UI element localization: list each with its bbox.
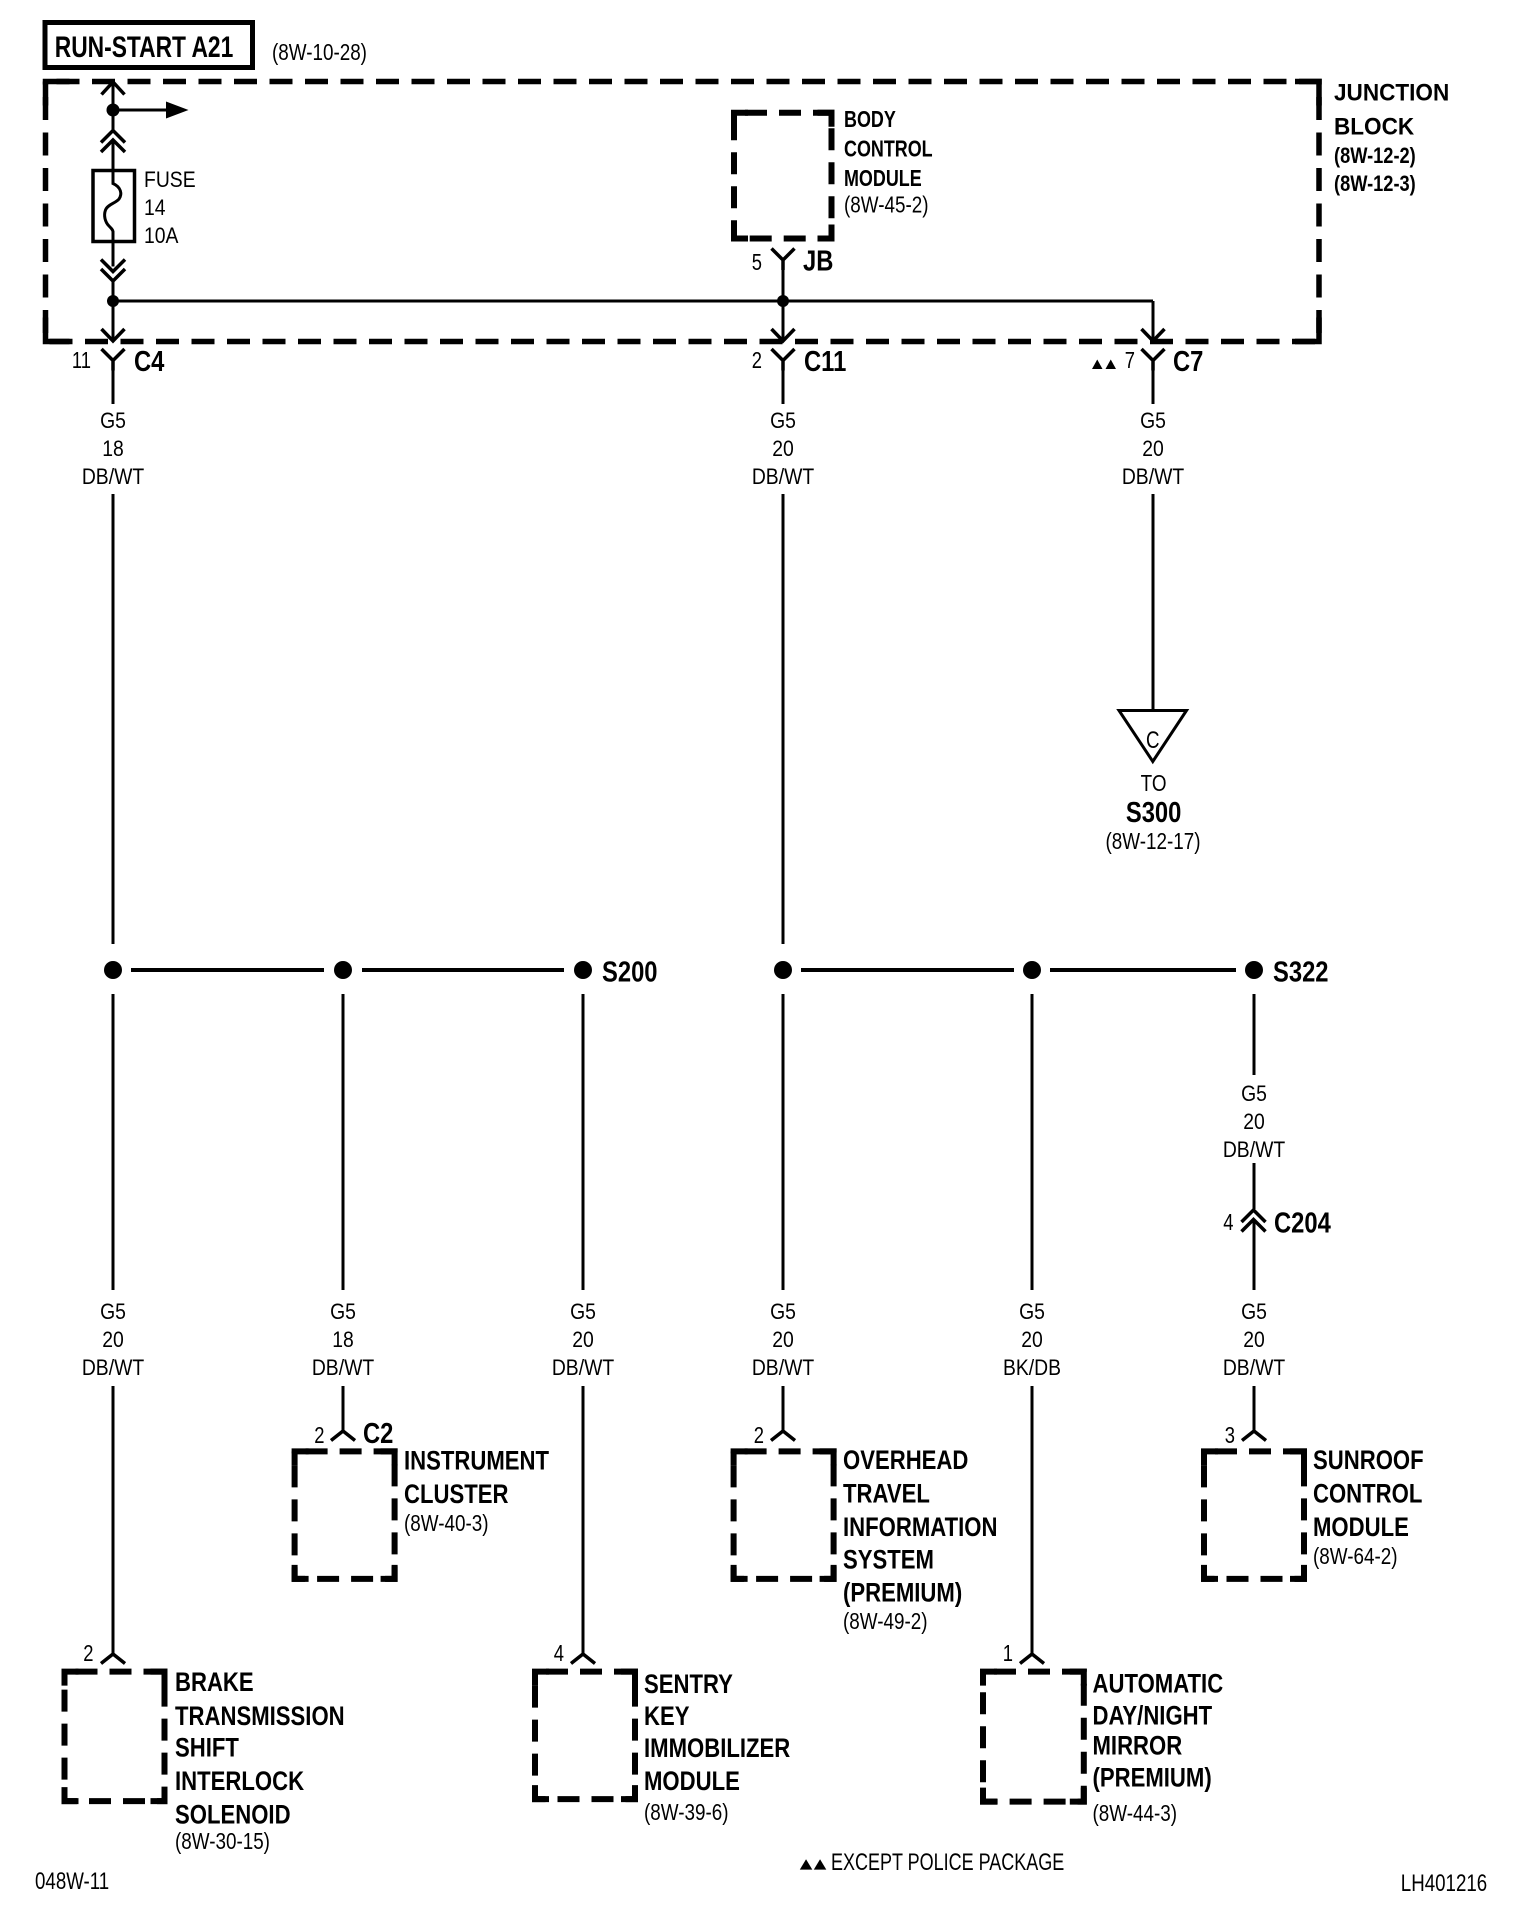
svg-text:TRAVEL: TRAVEL: [843, 1480, 930, 1510]
svg-text:G5: G5: [1019, 1300, 1045, 1324]
junction node at JB: [777, 295, 789, 307]
connector at mirror: [1020, 1654, 1044, 1664]
wire label G5 20 DB/WT: [1223, 1082, 1286, 1162]
svg-text:(8W-40-3): (8W-40-3): [404, 1511, 488, 1536]
label fuse 14 10A: [144, 168, 196, 248]
connector C4: [102, 349, 125, 371]
svg-text:2: 2: [83, 1641, 93, 1666]
svg-text:20: 20: [102, 1328, 124, 1352]
svg-text:CONTROL: CONTROL: [844, 136, 933, 162]
label TO S300: [1106, 771, 1201, 854]
svg-text:DB/WT: DB/WT: [82, 1356, 145, 1380]
svg-text:G5: G5: [1241, 1082, 1267, 1106]
connector pass-through (double chevron): [101, 131, 125, 153]
wire: [112, 110, 115, 133]
svg-text:C: C: [1146, 727, 1160, 754]
wire: [112, 242, 115, 267]
svg-text:KEY: KEY: [644, 1702, 690, 1732]
svg-text:C4: C4: [134, 345, 165, 378]
svg-text:(8W-44-3): (8W-44-3): [1093, 1801, 1177, 1826]
wire: [1152, 494, 1155, 711]
automatic day/night mirror: [983, 1672, 1084, 1802]
svg-text:20: 20: [1142, 437, 1164, 461]
svg-text:20: 20: [572, 1328, 594, 1352]
svg-text:20: 20: [772, 437, 794, 461]
wire label G5 20 DB/WT: [1122, 409, 1185, 489]
wire label G5 20 DB/WT: [752, 409, 815, 489]
svg-text:S300: S300: [1126, 796, 1181, 829]
wire label G5 20 DB/WT: [752, 1300, 815, 1380]
sunroof control module: [1204, 1451, 1304, 1579]
svg-text:20: 20: [772, 1328, 794, 1352]
label overhead travel information system (premium): [843, 1446, 997, 1634]
wire: [582, 1386, 585, 1654]
wire label G5 20 DB/WT: [552, 1300, 615, 1380]
svg-text:BODY: BODY: [844, 107, 896, 133]
svg-text:MODULE: MODULE: [844, 166, 922, 192]
svg-text:OVERHEAD: OVERHEAD: [843, 1446, 968, 1476]
svg-text:BK/DB: BK/DB: [1003, 1356, 1061, 1380]
svg-text:BRAKE: BRAKE: [175, 1668, 254, 1698]
wire: [112, 370, 115, 404]
wire label G5 18 DB/WT: [312, 1300, 375, 1380]
svg-text:(8W-49-2): (8W-49-2): [843, 1609, 927, 1634]
svg-text:DB/WT: DB/WT: [1223, 1138, 1286, 1162]
label sunroof control module: [1313, 1446, 1424, 1569]
junction node: [107, 104, 120, 117]
connector at solenoid: [101, 1654, 125, 1664]
svg-text:(8W-30-15): (8W-30-15): [175, 1829, 270, 1854]
svg-text:048W-11: 048W-11: [35, 1868, 109, 1895]
sentry key immobilizer module: [535, 1672, 635, 1800]
svg-text:(8W-12-17): (8W-12-17): [1106, 829, 1201, 854]
svg-text:SHIFT: SHIFT: [175, 1734, 239, 1764]
svg-text:G5: G5: [100, 409, 126, 433]
svg-text:DB/WT: DB/WT: [82, 465, 145, 489]
svg-text:20: 20: [1243, 1110, 1265, 1134]
wire: [782, 370, 785, 404]
svg-text:18: 18: [332, 1328, 354, 1352]
svg-text:DB/WT: DB/WT: [552, 1356, 615, 1380]
wire: [1031, 994, 1034, 1290]
wire: [112, 494, 115, 944]
wire label G5 20 DB/WT: [1223, 1300, 1286, 1380]
wire label G5 20 DB/WT: [82, 1300, 145, 1380]
wire: [112, 301, 115, 339]
wire: [782, 994, 785, 1290]
in-line connector C204: [1223, 1206, 1331, 1239]
wire: [582, 994, 585, 1290]
svg-text:MIRROR: MIRROR: [1093, 1732, 1183, 1762]
svg-text:4: 4: [554, 1641, 564, 1666]
svg-text:3: 3: [1225, 1423, 1235, 1448]
svg-text:G5: G5: [1241, 1300, 1267, 1324]
svg-text:5: 5: [752, 250, 762, 275]
connector pass-through (double chevron down): [101, 260, 125, 282]
arrow into connector C4: [102, 329, 125, 341]
wire: [112, 141, 115, 171]
svg-text:RUN-START A21: RUN-START A21: [55, 30, 234, 64]
svg-text:SOLENOID: SOLENOID: [175, 1801, 291, 1831]
wire: [1152, 370, 1155, 404]
svg-text:(8W-12-3): (8W-12-3): [1334, 173, 1416, 197]
wire: [1152, 301, 1155, 339]
svg-text:MODULE: MODULE: [644, 1767, 740, 1797]
svg-text:4: 4: [1223, 1210, 1233, 1235]
svg-text:G5: G5: [770, 409, 796, 433]
feed box RUN-START A21: [45, 23, 253, 68]
svg-text:(PREMIUM): (PREMIUM): [843, 1579, 962, 1609]
svg-text:2: 2: [752, 348, 762, 373]
svg-text:LH401216: LH401216: [1401, 1870, 1487, 1897]
bus wire inside junction block: [113, 300, 1153, 303]
svg-text:(8W-45-2): (8W-45-2): [844, 193, 928, 218]
wire: [1253, 1163, 1256, 1209]
svg-text:G5: G5: [770, 1300, 796, 1324]
connector C11: [772, 349, 795, 371]
brake transmission shift interlock solenoid: [65, 1672, 165, 1802]
svg-text:G5: G5: [1140, 409, 1166, 433]
svg-text:(8W-12-2): (8W-12-2): [1334, 145, 1416, 169]
svg-text:G5: G5: [100, 1300, 126, 1324]
connector at OTIS: [771, 1431, 795, 1441]
svg-text:C7: C7: [1173, 345, 1203, 378]
svg-text:SENTRY: SENTRY: [644, 1670, 733, 1700]
instrument cluster: [295, 1451, 395, 1579]
svg-text:(8W-64-2): (8W-64-2): [1313, 1544, 1397, 1569]
svg-text:FUSE: FUSE: [144, 168, 196, 192]
svg-text:1: 1: [1003, 1641, 1013, 1666]
svg-text:AUTOMATIC: AUTOMATIC: [1093, 1670, 1224, 1700]
junction block border: [46, 82, 1320, 342]
junction node: [107, 295, 119, 307]
svg-text:CONTROL: CONTROL: [1313, 1480, 1422, 1510]
svg-text:2: 2: [754, 1423, 764, 1448]
wire: [782, 1386, 785, 1431]
splice S200: [104, 955, 657, 988]
wire: [1253, 1220, 1256, 1290]
svg-text:INFORMATION: INFORMATION: [843, 1513, 997, 1543]
svg-text:S322: S322: [1273, 955, 1328, 988]
svg-text:IMMOBILIZER: IMMOBILIZER: [644, 1734, 790, 1764]
svg-text:BLOCK: BLOCK: [1334, 113, 1414, 140]
svg-text:11: 11: [72, 348, 91, 373]
wire: [112, 1386, 115, 1654]
wire: [1253, 994, 1256, 1075]
wire: [112, 994, 115, 1290]
svg-text:18: 18: [102, 437, 124, 461]
wire label G5 20 BK/DB: [1003, 1300, 1061, 1380]
wire: [112, 84, 115, 110]
police package marks: [1092, 360, 1103, 370]
connector C2: [331, 1431, 355, 1441]
splice S322: [774, 955, 1328, 988]
svg-text:MODULE: MODULE: [1313, 1513, 1409, 1543]
svg-text:20: 20: [1021, 1328, 1043, 1352]
arrow into connector C11: [772, 329, 795, 341]
svg-text:G5: G5: [330, 1300, 356, 1324]
connector JB: [772, 249, 795, 271]
svg-text:DB/WT: DB/WT: [1122, 465, 1185, 489]
connector C7: [1142, 349, 1165, 371]
junction block label: [1334, 79, 1449, 197]
arrow into connector C7: [1142, 329, 1165, 341]
svg-text:INTERLOCK: INTERLOCK: [175, 1767, 304, 1797]
body control module: [734, 113, 832, 239]
footnote except police package: [800, 1850, 1065, 1876]
svg-text:14: 14: [144, 196, 166, 220]
wire: [782, 260, 785, 339]
svg-text:(PREMIUM): (PREMIUM): [1093, 1764, 1212, 1794]
svg-text:TRANSMISSION: TRANSMISSION: [175, 1702, 345, 1732]
wire label G5 18 DB/WT: [82, 409, 145, 489]
wire: [1031, 1386, 1034, 1654]
svg-text:CLUSTER: CLUSTER: [404, 1480, 509, 1510]
svg-text:TO: TO: [1141, 771, 1167, 796]
fuse 14 10A: [93, 171, 135, 242]
label automatic day/night mirror (premium): [1093, 1670, 1224, 1827]
svg-text:20: 20: [1243, 1328, 1265, 1352]
label sentry key immobilizer module: [644, 1670, 790, 1825]
svg-text:S200: S200: [602, 955, 657, 988]
svg-text:INSTRUMENT: INSTRUMENT: [404, 1447, 549, 1477]
svg-text:DB/WT: DB/WT: [752, 1356, 815, 1380]
svg-text:DB/WT: DB/WT: [752, 465, 815, 489]
connector at SKIM: [571, 1654, 595, 1664]
label body control module: [844, 107, 933, 218]
svg-text:DAY/NIGHT: DAY/NIGHT: [1093, 1702, 1213, 1732]
svg-text:7: 7: [1125, 348, 1135, 373]
svg-text:C11: C11: [804, 345, 846, 378]
connector at sunroof module: [1242, 1431, 1266, 1441]
label instrument cluster: [404, 1447, 549, 1537]
svg-text:G5: G5: [570, 1300, 596, 1324]
svg-text:C204: C204: [1274, 1206, 1331, 1239]
wire: [342, 994, 345, 1290]
wire: [112, 281, 115, 301]
svg-text:SUNROOF: SUNROOF: [1313, 1446, 1424, 1476]
svg-text:DB/WT: DB/WT: [312, 1356, 375, 1380]
overhead travel information system: [734, 1451, 834, 1579]
off-page connector C to S300: [1119, 711, 1187, 762]
svg-text:JB: JB: [803, 244, 833, 277]
svg-text:(8W-10-28): (8W-10-28): [272, 40, 367, 65]
svg-text:SYSTEM: SYSTEM: [843, 1546, 934, 1576]
svg-text:(8W-39-6): (8W-39-6): [644, 1800, 728, 1825]
wire: [782, 494, 785, 944]
wire: [342, 1386, 345, 1431]
svg-text:EXCEPT POLICE PACKAGE: EXCEPT POLICE PACKAGE: [831, 1850, 1064, 1876]
arrow up to RUN-START A21: [102, 82, 125, 95]
svg-text:2: 2: [314, 1423, 324, 1448]
branch arrow right: [113, 109, 166, 112]
svg-text:DB/WT: DB/WT: [1223, 1356, 1286, 1380]
svg-text:JUNCTION: JUNCTION: [1334, 79, 1449, 106]
svg-text:C2: C2: [363, 1417, 393, 1450]
svg-text:10A: 10A: [144, 224, 179, 248]
wire: [1253, 1386, 1256, 1431]
label brake transmission shift interlock solenoid: [175, 1668, 345, 1854]
